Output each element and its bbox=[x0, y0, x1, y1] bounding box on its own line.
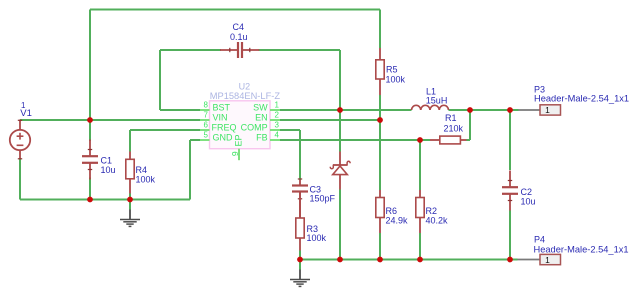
svg-text:0.1u: 0.1u bbox=[230, 32, 248, 42]
svg-text:MP1584EN-LF-Z: MP1584EN-LF-Z bbox=[210, 91, 281, 101]
svg-text:Header-Male-2.54_1x1: Header-Male-2.54_1x1 bbox=[534, 94, 629, 104]
svg-text:4: 4 bbox=[275, 131, 280, 140]
svg-text:6: 6 bbox=[204, 121, 209, 130]
svg-text:1: 1 bbox=[545, 105, 550, 115]
svg-text:1: 1 bbox=[275, 101, 280, 110]
svg-text:C1: C1 bbox=[101, 155, 113, 165]
svg-text:15uH: 15uH bbox=[426, 96, 448, 106]
svg-text:V1: V1 bbox=[20, 108, 32, 119]
svg-text:COMP: COMP bbox=[241, 122, 268, 132]
svg-text:9: 9 bbox=[230, 151, 240, 156]
svg-text:100k: 100k bbox=[307, 233, 327, 243]
svg-text:100k: 100k bbox=[386, 74, 406, 84]
svg-text:40.2k: 40.2k bbox=[426, 215, 449, 225]
svg-text:FREQ: FREQ bbox=[212, 122, 237, 132]
svg-text:Header-Male-2.54_1x1: Header-Male-2.54_1x1 bbox=[534, 244, 629, 254]
svg-text:U2: U2 bbox=[239, 82, 251, 92]
svg-text:FB: FB bbox=[256, 132, 268, 142]
svg-text:EP: EP bbox=[233, 134, 243, 146]
svg-text:VIN: VIN bbox=[213, 112, 228, 122]
svg-text:C4: C4 bbox=[233, 22, 245, 32]
svg-text:150pF: 150pF bbox=[310, 194, 336, 204]
svg-text:R4: R4 bbox=[136, 165, 148, 175]
svg-text:8: 8 bbox=[204, 101, 209, 110]
svg-text:24.9k: 24.9k bbox=[386, 215, 409, 225]
svg-text:BST: BST bbox=[213, 102, 231, 112]
svg-text:R1: R1 bbox=[445, 113, 457, 123]
svg-text:10u: 10u bbox=[521, 196, 536, 206]
svg-text:7: 7 bbox=[204, 111, 209, 120]
svg-text:SW: SW bbox=[253, 102, 268, 112]
svg-text:P4: P4 bbox=[534, 234, 545, 244]
svg-text:210k: 210k bbox=[444, 123, 464, 133]
svg-text:2: 2 bbox=[275, 111, 280, 120]
svg-text:1: 1 bbox=[545, 255, 550, 265]
svg-text:GND: GND bbox=[213, 132, 234, 142]
svg-text:3: 3 bbox=[275, 121, 280, 130]
svg-text:100k: 100k bbox=[136, 175, 156, 185]
svg-text:R5: R5 bbox=[386, 64, 398, 74]
svg-text:5: 5 bbox=[204, 131, 209, 140]
svg-text:EN: EN bbox=[255, 112, 268, 122]
svg-text:10u: 10u bbox=[101, 165, 116, 175]
